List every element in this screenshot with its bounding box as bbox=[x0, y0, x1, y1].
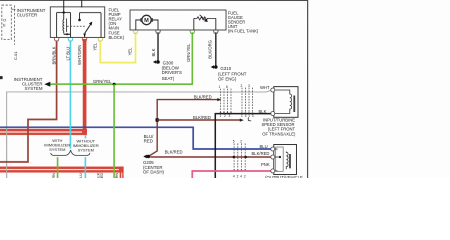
relay mechanical link (dashed) bbox=[67, 25, 86, 27]
svg-text:4: 4 bbox=[245, 114, 247, 118]
wire: BLK from sender pin 2 to ground G300 bbox=[157, 32, 159, 61]
output sensor pin BLK/RED bbox=[271, 155, 275, 159]
svg-text:SYSTEM: SYSTEM bbox=[49, 147, 65, 152]
wire: BLK/RED lower run to output sensor bbox=[150, 156, 271, 158]
svg-text:GRN/YEL: GRN/YEL bbox=[186, 43, 191, 62]
relay switch right drop to pin 4 bbox=[100, 13, 102, 38]
svg-text:E: E bbox=[3, 22, 6, 27]
svg-text:1: 1 bbox=[248, 114, 250, 118]
svg-text:1: 1 bbox=[241, 114, 243, 118]
highlighted red bus bar 1 (pair) bbox=[0, 129, 87, 135]
svg-text:PNK: PNK bbox=[261, 162, 270, 167]
svg-text:BLK/RED: BLK/RED bbox=[194, 94, 212, 99]
relay coil top bar bbox=[57, 12, 71, 14]
svg-text:OF TRANSAXLE): OF TRANSAXLE) bbox=[262, 131, 296, 136]
ground G300 bbox=[156, 60, 160, 64]
svg-text:DRIVER'S: DRIVER'S bbox=[162, 70, 182, 75]
relay pin stub to arm bbox=[84, 33, 86, 37]
svg-text:BLU: BLU bbox=[259, 144, 267, 149]
diagram frame top edge bbox=[0, 0, 308, 1]
motor right lead bbox=[153, 20, 158, 30]
sender pin 4 socket bbox=[213, 30, 218, 33]
sender pin 3 socket bbox=[190, 30, 195, 33]
wire: BLU horizontal from left edge to output sensor bbox=[0, 127, 271, 149]
ground G205 bbox=[147, 155, 150, 158]
wire: BLK from input sensor down to bottom edge bbox=[215, 114, 271, 178]
relay coil right leg bbox=[70, 13, 72, 38]
svg-text:GRN: GRN bbox=[52, 173, 56, 178]
wire: WHT (gray) vertical overlay across bars bbox=[6, 128, 8, 177]
wire: GRN/YEL from sender pin 3 left to instrument cluster system bbox=[50, 32, 193, 84]
svg-text:M: M bbox=[144, 18, 149, 24]
output/vehicle speed sensor box bbox=[274, 145, 297, 175]
svg-text:OF ENG): OF ENG) bbox=[218, 77, 237, 82]
svg-text:6: 6 bbox=[226, 85, 228, 89]
relay pin 1 socket bbox=[54, 38, 59, 41]
svg-text:(OUTPUT/VEHICLE: (OUTPUT/VEHICLE bbox=[265, 175, 303, 178]
wire: BLK/RED upper run to connector bbox=[149, 100, 219, 157]
highlighted red bus bar 2 (pair) with corner down bbox=[0, 167, 124, 173]
node: relay switch contact bbox=[78, 19, 81, 22]
relay switch arm with arrowhead bbox=[85, 24, 91, 33]
svg-text:5: 5 bbox=[233, 140, 235, 144]
wire: PNK to output sensor bbox=[192, 171, 271, 178]
cyan stub under red corner bbox=[84, 135, 86, 138]
fuel pump relay box bbox=[50, 7, 104, 38]
relay switch feed stub (cut at top edge) bbox=[81, 0, 83, 7]
svg-text:2: 2 bbox=[240, 140, 242, 144]
svg-text:BLK/RED: BLK/RED bbox=[251, 151, 269, 156]
output sensor pin BLU bbox=[271, 147, 275, 151]
svg-text:3: 3 bbox=[248, 84, 250, 88]
svg-text:BLK/ORG: BLK/ORG bbox=[207, 40, 212, 59]
input sensor pin WHT bbox=[271, 88, 275, 92]
svg-text:1: 1 bbox=[219, 114, 221, 118]
svg-text:2: 2 bbox=[244, 174, 246, 178]
relay switch left drop to contact bbox=[79, 13, 81, 19]
svg-text:4: 4 bbox=[233, 174, 235, 178]
node: coil feed junction bbox=[63, 11, 65, 13]
wire: BLK/ORG from sender pin 4 to ground G310 bbox=[215, 32, 217, 66]
svg-text:YEL: YEL bbox=[92, 42, 97, 51]
left edge tick bbox=[0, 76, 3, 79]
relay pin 2 socket bbox=[68, 38, 73, 41]
svg-text:BLK: BLK bbox=[151, 48, 156, 56]
inline connector group 1 bbox=[220, 89, 231, 113]
svg-text:G310: G310 bbox=[220, 66, 231, 71]
wire: BRN/BLK from relay pin 1 to left edge bbox=[0, 40, 57, 162]
fuel level sender variable resistor bbox=[194, 17, 216, 20]
node: BLU/RED junction bbox=[155, 118, 158, 121]
sender resistor left lead bbox=[193, 18, 195, 30]
svg-text:1: 1 bbox=[219, 85, 221, 89]
ground G310 bbox=[214, 65, 218, 69]
input sensor pin BLK bbox=[271, 112, 275, 116]
svg-text:LT BLU: LT BLU bbox=[65, 47, 70, 61]
output sensor pin PNK bbox=[271, 169, 275, 173]
svg-text:RED: RED bbox=[100, 173, 104, 179]
inline connector group 3 (lower) bbox=[234, 143, 245, 167]
wire: LT BLU non-immobilizer branch down bbox=[84, 157, 86, 178]
svg-text:WHT: WHT bbox=[260, 85, 270, 90]
svg-text:BRN/BLK: BRN/BLK bbox=[52, 46, 57, 64]
svg-text:GRN/YEL: GRN/YEL bbox=[93, 79, 112, 84]
svg-text:YEL: YEL bbox=[128, 47, 133, 56]
arrow to instrument cluster system bbox=[44, 82, 50, 87]
svg-text:BLK: BLK bbox=[258, 109, 266, 114]
input/turbine speed sensor box bbox=[274, 87, 298, 118]
relay coil core line bbox=[66, 18, 68, 32]
wire: GRN immobilizer branch down bbox=[57, 157, 59, 178]
svg-text:2: 2 bbox=[237, 174, 239, 178]
input sensor core bar bbox=[293, 96, 295, 112]
relay pin 4 socket bbox=[98, 38, 103, 41]
relay coil left leg bbox=[56, 13, 58, 38]
node: GRN/YEL branch junction bbox=[113, 83, 116, 86]
relay pin 3 socket bbox=[82, 38, 87, 41]
svg-text:BLK/RED: BLK/RED bbox=[165, 149, 183, 154]
wire: YEL from relay pin 4 to sender pin 1 bbox=[100, 32, 135, 62]
svg-text:SYSTEM: SYSTEM bbox=[24, 86, 42, 91]
svg-text:GRN: GRN bbox=[115, 173, 119, 179]
svg-text:C-01: C-01 bbox=[13, 51, 18, 60]
output sensor core bar bbox=[289, 154, 291, 168]
wire: WHT (gray) from sensor to left edge and down bbox=[266, 90, 271, 92]
svg-text:2: 2 bbox=[241, 84, 243, 88]
diagram frame right edge bbox=[307, 0, 308, 178]
inline connector group 2 bbox=[242, 88, 253, 114]
svg-text:3: 3 bbox=[252, 114, 254, 118]
sender pin 1 socket bbox=[133, 30, 138, 33]
fuel gauge sender unit box bbox=[130, 10, 226, 30]
svg-text:BLOCK): BLOCK) bbox=[109, 35, 125, 40]
svg-text:4: 4 bbox=[240, 174, 242, 178]
wire: BLK/RED middle run bbox=[157, 119, 241, 121]
svg-text:CLUSTER: CLUSTER bbox=[17, 13, 38, 18]
relay coil bottom bar bbox=[64, 33, 71, 35]
svg-text:SYSTEM: SYSTEM bbox=[78, 148, 94, 153]
brace selecting immobilizer variants bbox=[51, 150, 90, 155]
wire: GRN/YEL branch down to bottom edge bbox=[113, 84, 115, 178]
sender pin 2 socket bbox=[156, 30, 161, 33]
sender resistor right lead bbox=[215, 18, 217, 30]
leader line to instrument cluster label bbox=[11, 8, 15, 10]
motor left lead bbox=[136, 20, 141, 30]
svg-text:SEAT): SEAT) bbox=[162, 76, 175, 81]
relay switch top bar bbox=[80, 12, 102, 14]
relay coil winding bbox=[62, 13, 65, 34]
svg-text:3: 3 bbox=[228, 114, 230, 118]
svg-text:RED: RED bbox=[144, 139, 153, 144]
wire: WHT/GRN highlighted thick red from relay pin 3 bbox=[83, 39, 87, 132]
connector C-01 dashed box (instrument cluster) bbox=[2, 5, 15, 45]
input sensor coil bbox=[275, 90, 292, 114]
svg-text:(IN FUEL TANK): (IN FUEL TANK) bbox=[228, 29, 259, 34]
fuel pump motor symbol M bbox=[142, 15, 151, 24]
relay coil feed stub (cut at top edge) bbox=[63, 0, 65, 13]
svg-text:WHT/GRN: WHT/GRN bbox=[77, 45, 82, 65]
svg-text:BLK/RED: BLK/RED bbox=[193, 115, 211, 120]
svg-text:OF DASH): OF DASH) bbox=[143, 170, 165, 175]
output sensor coil bbox=[286, 152, 288, 170]
svg-text:LT BLU: LT BLU bbox=[79, 173, 83, 178]
wire: LT BLU from relay pin 2 down to immobilizer split bbox=[69, 40, 71, 148]
svg-text:2: 2 bbox=[224, 114, 226, 118]
